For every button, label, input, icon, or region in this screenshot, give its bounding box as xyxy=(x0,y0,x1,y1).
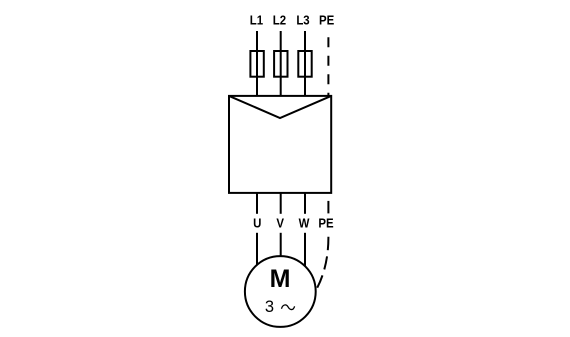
node W xyxy=(299,216,310,231)
wire starter to label W xyxy=(304,193,306,214)
wire PE dashed below starter xyxy=(327,201,329,214)
wire L3 to fuse F3 xyxy=(304,31,306,96)
wire W to motor xyxy=(304,233,306,266)
motor phase label 3 xyxy=(265,298,274,316)
svg-text:U: U xyxy=(253,216,261,231)
svg-text:L2: L2 xyxy=(273,13,287,28)
node V xyxy=(276,216,284,231)
starter chevron symbol xyxy=(229,96,331,118)
wire U to motor xyxy=(256,233,258,265)
node L3 xyxy=(296,13,310,28)
wire starter to label V xyxy=(280,193,282,214)
svg-text:PE: PE xyxy=(318,216,333,231)
node PE (top) xyxy=(319,13,334,28)
svg-text:V: V xyxy=(276,216,284,231)
wire L1 to fuse F1 xyxy=(256,31,258,96)
wire PE dashed (top) xyxy=(327,37,329,96)
svg-text:L3: L3 xyxy=(296,13,310,28)
motor label M xyxy=(270,265,291,293)
svg-text:M: M xyxy=(270,265,291,293)
wire starter to label U xyxy=(256,193,258,214)
node L1 xyxy=(250,13,264,28)
wire L2 to fuse F2 xyxy=(280,31,282,96)
node PE (bottom) xyxy=(318,216,333,231)
svg-text:PE: PE xyxy=(319,13,334,28)
motor tilde (AC symbol) xyxy=(282,305,295,310)
svg-text:L1: L1 xyxy=(250,13,264,28)
starter box K1 xyxy=(229,96,331,193)
fuse F1 xyxy=(250,51,263,77)
svg-text:W: W xyxy=(299,216,310,231)
wire V to motor xyxy=(280,233,282,256)
node U xyxy=(253,216,261,231)
wire PE dashed curve to motor xyxy=(316,237,328,290)
node L2 xyxy=(273,13,287,28)
motor M1 circle xyxy=(245,256,316,327)
fuse F2 xyxy=(274,51,287,77)
fuse F3 xyxy=(298,51,311,77)
svg-text:3: 3 xyxy=(265,298,274,316)
